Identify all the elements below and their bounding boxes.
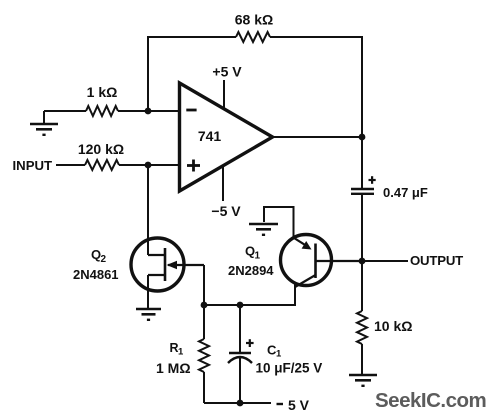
value label 120 kOhm: [78, 141, 124, 157]
wire Q2 source to ground: [147, 275, 149, 309]
node junction op-amp output: [359, 134, 366, 141]
wire rail y305: [204, 284, 295, 305]
svg-text:0.47 μF: 0.47 μF: [383, 185, 428, 200]
svg-text:2N4861: 2N4861: [73, 267, 119, 282]
transistor Q2 2N4861 (JFET): [131, 238, 204, 291]
node junction non-inverting input: [145, 162, 152, 169]
wire Q2 gate down to rail: [203, 265, 205, 305]
node junction rail-R1: [201, 302, 208, 309]
svg-text:68 kΩ: 68 kΩ: [235, 12, 273, 28]
wire ground to R 1k: [44, 110, 86, 112]
value label 68 kOhm: [235, 12, 273, 28]
wire to OUTPUT terminal: [362, 260, 408, 262]
ground G1 (inverting input bias): [30, 111, 58, 136]
label C1: [267, 343, 282, 360]
wire C 0.47 to output node: [361, 194, 363, 311]
svg-text:OUTPUT: OUTPUT: [410, 253, 463, 268]
resistor R 1k: [86, 106, 118, 116]
wire rail to R1: [203, 305, 205, 339]
wire R 10k to ground: [361, 344, 363, 375]
node junction inverting input: [145, 108, 152, 115]
svg-text:INPUT: INPUT: [13, 158, 53, 173]
value label 0.47 uF: [383, 185, 428, 200]
wire feedback top-left segment: [148, 37, 236, 111]
watermark SeekIC.com: [375, 389, 486, 412]
op-amp minus input sign: [186, 109, 196, 112]
svg-text:1: 1: [276, 349, 282, 360]
node junction rail-C1: [237, 302, 244, 309]
node junction C1 bottom: [237, 400, 244, 407]
INPUT label: [13, 158, 53, 173]
wire -5V rail: [204, 402, 271, 404]
value label 10 kOhm: [374, 318, 412, 334]
svg-text:−5 V: −5 V: [211, 203, 241, 219]
resistor R 10k: [357, 311, 367, 344]
svg-text:1: 1: [178, 347, 184, 358]
label Q1: [245, 244, 261, 262]
ground G3 wire (Q1 emitter): [264, 207, 294, 237]
ground G2 (below Q2): [136, 309, 161, 321]
op-amp +5V supply wire: [223, 80, 225, 109]
label Q2: [91, 247, 107, 265]
op-amp U1 741 triangle: [180, 83, 273, 191]
label 2N4861: [73, 267, 119, 282]
resistor R 120k: [85, 160, 119, 170]
label +5 V: [212, 64, 242, 80]
svg-text:5 V: 5 V: [288, 397, 310, 413]
wire non-inverting node down to Q2 drain: [147, 165, 149, 255]
wire R 120k to op-amp non-inverting input: [119, 164, 179, 166]
wire INPUT to R 120k: [56, 164, 85, 166]
svg-text:1 kΩ: 1 kΩ: [87, 84, 118, 100]
value label 10 uF/25 V: [256, 361, 323, 376]
wire op-amp output: [273, 136, 363, 138]
wire C1 to -5V rail: [239, 357, 241, 403]
svg-text:1: 1: [255, 251, 261, 262]
capacitor C1 10uF (polarized): [228, 339, 254, 363]
label R1: [170, 341, 185, 358]
ground G4 (below 10k): [349, 375, 377, 387]
node junction OUTPUT: [359, 258, 366, 265]
op-amp -5V supply wire: [222, 166, 224, 202]
op-amp plus input sign: [187, 160, 200, 172]
svg-text:2N2894: 2N2894: [228, 263, 274, 278]
resistor R1 1M: [199, 339, 209, 372]
capacitor C 0.47uF: [351, 176, 376, 194]
label -5 V (bottom rail): [277, 397, 310, 413]
wire Q1 collector down to rail: [294, 286, 296, 305]
value label 1 MOhm: [156, 360, 191, 376]
svg-text:SeekIC.com: SeekIC.com: [375, 389, 486, 412]
svg-text:10 μF/25 V: 10 μF/25 V: [256, 361, 323, 376]
wire rail to C1: [239, 305, 241, 353]
label 2N2894: [228, 263, 274, 278]
ground G3: [249, 224, 278, 236]
svg-text:120 kΩ: 120 kΩ: [78, 141, 124, 157]
wire feedback top-right segment: [270, 37, 362, 137]
label -5 V (op-amp): [211, 203, 241, 219]
svg-text:10 kΩ: 10 kΩ: [374, 318, 412, 334]
resistor R 68k: [236, 32, 270, 42]
value label 1 kOhm: [87, 84, 118, 100]
svg-text:2: 2: [101, 254, 107, 265]
svg-text:1 MΩ: 1 MΩ: [156, 360, 191, 376]
transistor Q1 2N2894 (PNP): [281, 235, 363, 288]
svg-text:741: 741: [198, 128, 222, 144]
wire R 1k to op-amp inverting input: [118, 110, 179, 112]
wire output node down to C 0.47: [361, 137, 363, 189]
svg-text:+5 V: +5 V: [212, 64, 242, 80]
wire R1 to -5V rail: [203, 372, 205, 403]
OUTPUT label: [410, 253, 463, 268]
